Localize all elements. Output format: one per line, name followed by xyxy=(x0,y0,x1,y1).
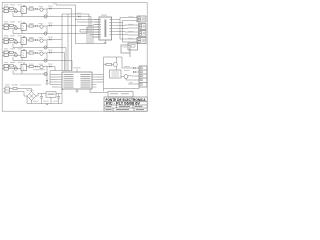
wire vertical xyxy=(103,57,105,92)
transistor Q11 xyxy=(124,75,128,79)
wire net B2 top xyxy=(47,26,93,44)
background xyxy=(0,0,150,114)
diode D24 xyxy=(49,52,51,54)
wire stubs PIC left xyxy=(50,74,58,76)
wire net B4 top xyxy=(47,53,65,71)
bridge B1 xyxy=(27,92,36,101)
fuse F1 xyxy=(9,88,13,90)
wire pin row feeds xyxy=(75,19,99,21)
diode D13 xyxy=(46,80,48,82)
label xyxy=(53,2,57,5)
channel block 4 CN5 xyxy=(2,48,47,62)
title cells text xyxy=(106,106,145,110)
wire U2 to J2 xyxy=(116,18,137,20)
net labels xyxy=(124,65,130,68)
wire xyxy=(133,75,139,77)
net labels xyxy=(128,15,134,18)
svg-text:PIC - PLT 06/08 6V: PIC - PLT 06/08 6V xyxy=(106,102,141,106)
cap C10 xyxy=(41,94,43,97)
label D20 xyxy=(77,12,82,15)
IC U2 driver xyxy=(95,17,117,40)
wire rows to J6 xyxy=(122,67,133,69)
diode D23 xyxy=(49,39,51,41)
channel block 5 CN6 xyxy=(2,62,47,76)
wire out xyxy=(56,93,62,95)
mid right circuit xyxy=(104,57,140,92)
wire xyxy=(36,94,46,97)
ground under U1 xyxy=(75,90,79,92)
regulator VR1 xyxy=(46,92,56,97)
wire vertical x71.5 xyxy=(71,9,73,71)
label xyxy=(74,66,81,69)
wire vertical x75.5 xyxy=(75,5,77,44)
value labels xyxy=(33,100,39,103)
diode D22 xyxy=(49,25,51,27)
relay RL1 top right xyxy=(121,43,138,57)
cap C11 xyxy=(58,94,60,97)
diode D25 xyxy=(49,66,51,68)
wire net B1 top xyxy=(47,8,72,10)
connector J3 xyxy=(139,24,147,30)
label U2 xyxy=(101,15,107,16)
wire vertical x68 xyxy=(67,14,69,71)
wire run y14 xyxy=(62,14,89,44)
wire xyxy=(17,89,32,92)
wire net B5 bottom xyxy=(47,73,48,75)
diode D11 xyxy=(133,71,135,73)
wire net B4 bottom xyxy=(47,61,72,71)
channel block 1 CN2 xyxy=(2,4,47,18)
wire net B5 top xyxy=(47,67,55,71)
wire net B3 top xyxy=(47,39,62,41)
connector CN1 xyxy=(5,87,9,93)
relay K1 xyxy=(110,70,122,78)
diode D10 xyxy=(133,67,135,69)
wire top xyxy=(104,56,117,58)
wire bottom xyxy=(104,87,140,89)
ground under U2 xyxy=(104,40,107,44)
resistor R20 xyxy=(106,63,112,65)
diode D20 xyxy=(78,16,80,18)
connector J6 xyxy=(139,66,147,87)
connector J2 xyxy=(137,16,146,22)
PIC microcontroller U1 xyxy=(58,67,97,92)
connector J5 xyxy=(137,38,146,44)
page border frame xyxy=(2,2,147,111)
wire net B3 bottom xyxy=(47,48,66,71)
power supply section xyxy=(3,84,63,105)
connector J4 xyxy=(139,31,147,37)
box above title xyxy=(108,92,133,98)
bottom right: wire over title xyxy=(90,89,133,97)
wire U2 to J3 xyxy=(116,24,139,27)
transistor Q10 xyxy=(113,63,117,67)
wire ground run xyxy=(75,43,105,45)
ground xyxy=(45,82,48,84)
wires PIC right to mid-right circuit xyxy=(33,69,104,84)
diode D21 xyxy=(49,8,51,10)
wire to J5 xyxy=(120,20,137,40)
channel block 2 CN3 xyxy=(2,21,47,35)
channel block 3 CN4 xyxy=(2,35,47,49)
wire vertical x62 xyxy=(61,14,63,71)
wire U2 to J4 xyxy=(116,31,139,34)
wire net B1 bottom xyxy=(47,17,91,44)
wire net B2 bottom xyxy=(47,27,87,44)
wire bundle to PIC xyxy=(50,70,72,72)
wire hang below B5 xyxy=(46,74,48,80)
ground rail xyxy=(27,103,62,105)
wire corner top xyxy=(56,4,76,6)
ground symbol xyxy=(45,104,48,106)
title block xyxy=(104,97,147,111)
labels xyxy=(5,83,10,86)
